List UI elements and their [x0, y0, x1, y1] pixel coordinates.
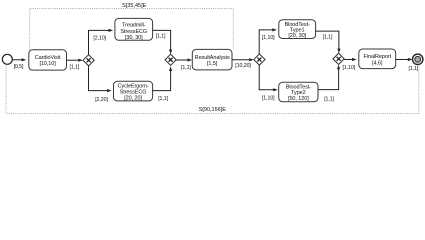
svg-text:[30, 30]: [30, 30]	[125, 35, 143, 41]
svg-text:[1,10]: [1,10]	[343, 65, 356, 71]
svg-text:[1,1]: [1,1]	[323, 35, 333, 41]
start event	[2, 54, 12, 64]
dashed time-interval bracket bottom S[90,156]E	[6, 66, 419, 114]
svg-text:ResultAnalysis: ResultAnalysis	[195, 55, 230, 61]
wire BloodTest-Type1 to G4, label [1,1]	[316, 31, 341, 53]
wire G3 up to BloodTest-Type1, label [1,10]	[259, 28, 277, 54]
svg-text:[1,1]: [1,1]	[158, 96, 168, 102]
task BloodTest-Type2 [50, 120]	[279, 82, 318, 102]
wire BloodTest-Type2 to G4, label [1,1]	[318, 65, 340, 103]
task FinalReport [4,6]	[359, 49, 396, 69]
svg-text:[0,5]: [0,5]	[14, 64, 24, 70]
wire G2 to ResultAnalysis, label [1,1]	[176, 58, 192, 71]
svg-text:Treadmill-: Treadmill-	[122, 23, 146, 29]
task ResultAnalysis [1,5]	[192, 49, 232, 70]
wire G3 down to BloodTest-Type2, label [1,10]	[259, 65, 278, 101]
svg-text:[10,10]: [10,10]	[39, 61, 56, 67]
task Treadmill-StressECG [30, 30]	[115, 18, 153, 41]
svg-text:[20, 20]: [20, 20]	[124, 95, 142, 101]
wire CardioVisit to gateway G1, label [1,1]	[67, 59, 83, 71]
svg-text:[1,1]: [1,1]	[181, 65, 191, 71]
task BloodTest-Type1 [20, 30]	[279, 20, 316, 39]
wire FinalReport to end event, label [1,1]	[396, 58, 419, 72]
svg-text:[1,10]: [1,10]	[262, 35, 275, 41]
svg-text:[1,5]: [1,5]	[207, 61, 218, 67]
XOR gateway G2 (merge)	[165, 54, 176, 65]
task CycleErgom-StressECG [20, 20]	[114, 81, 153, 101]
svg-text:[20, 30]: [20, 30]	[288, 33, 306, 39]
XOR gateway G4 (merge)	[333, 53, 344, 64]
svg-text:S[90,156]E: S[90,156]E	[199, 107, 227, 113]
svg-text:[1,1]: [1,1]	[324, 96, 334, 102]
wire G1 down to CycleErgom-StressECG, label [2,20]	[89, 66, 112, 103]
XOR gateway G3 (split)	[254, 54, 265, 65]
svg-text:[2,20]: [2,20]	[95, 97, 108, 103]
svg-text:CardioVisit: CardioVisit	[35, 55, 61, 61]
wire CycleErgom-StressECG to G2, label [1,1]	[153, 66, 173, 102]
svg-text:[1,1]: [1,1]	[70, 65, 80, 71]
wire Treadmill-StressECG to G2, label [1,1]	[153, 30, 173, 54]
svg-text:[1,1]: [1,1]	[409, 66, 419, 72]
dashed time-interval bracket top S[35,45]E	[30, 3, 234, 50]
svg-text:FinalReport: FinalReport	[363, 54, 391, 60]
svg-text:[1,10]: [1,10]	[262, 95, 275, 101]
task CardioVisit [10,10]	[29, 50, 67, 70]
XOR gateway G1 (split)	[83, 55, 94, 66]
wire G1 up to Treadmill-StressECG, label [2,10]	[89, 29, 114, 55]
svg-text:[1,1]: [1,1]	[156, 33, 166, 39]
svg-text:S[35,45]E: S[35,45]E	[122, 3, 146, 9]
end event	[413, 54, 423, 64]
svg-text:StressECG: StressECG	[120, 29, 147, 35]
wire G4 to FinalReport, label [1,10]	[343, 58, 357, 71]
svg-text:[50, 120]: [50, 120]	[288, 96, 309, 102]
wire ResultAnalysis to G3, label [10,20]	[232, 58, 254, 69]
wire start to CardioVisit, label [0,5]	[12, 58, 26, 70]
svg-text:[10,20]: [10,20]	[235, 63, 251, 69]
svg-text:[4,6]: [4,6]	[372, 60, 383, 66]
svg-text:[2,10]: [2,10]	[93, 36, 106, 42]
